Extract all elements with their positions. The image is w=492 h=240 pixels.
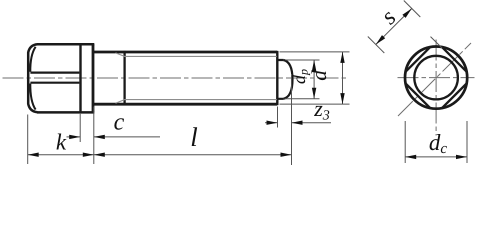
svg-text:d: d: [307, 70, 331, 81]
svg-text:k: k: [56, 129, 67, 154]
svg-text:c: c: [114, 109, 125, 135]
svg-text:z3: z3: [313, 96, 330, 124]
svg-text:dc: dc: [429, 130, 448, 157]
svg-text:l: l: [190, 122, 198, 152]
svg-text:s: s: [376, 5, 401, 30]
